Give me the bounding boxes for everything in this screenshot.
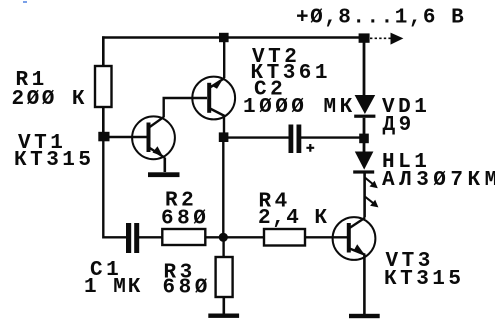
wire: HL1 to VT3 collector [363,174,366,218]
capacitor C2 [289,125,315,154]
node: junction R1/VT1 base [98,132,109,142]
wire: R2 to node B [205,236,223,238]
resistor R2 [162,229,205,245]
node: junction rail / supply arrow / VD1 [359,33,370,42]
node: junction VT2 collector / C2 [219,132,229,142]
wire: node E down to HL1 [363,142,366,152]
ground under VT3 [349,314,380,318]
svg-text:2,4 К: 2,4 К [258,207,329,230]
svg-text:68Ø: 68Ø [161,208,209,231]
wire: R1 top lead [102,36,105,66]
svg-text:Д9: Д9 [383,114,415,137]
wire: VT2 emitter up to rail [223,37,225,78]
wire: R3 bottom lead [223,297,226,314]
wire: VT3 emitter down [363,255,366,315]
LED HL1 [353,152,374,174]
svg-text:КТ315: КТ315 [384,268,465,291]
svg-text:+Ø,8...1,6 В: +Ø,8...1,6 В [296,7,465,30]
svg-text:КТ315: КТ315 [14,149,95,172]
wire: C2 to VD1 column [301,136,364,138]
wire: node B down to R3 [222,237,224,257]
wire: C1 to R2 [139,236,162,238]
supply arrow [370,33,403,45]
ground under VT1 [148,172,180,177]
wire: node B to R4 [223,236,264,238]
wire: R1 bottom lead [102,107,105,137]
svg-text:68Ø: 68Ø [163,277,211,300]
wire: VT1 collector up and right to VT2 base [164,98,207,117]
svg-text:АЛ3Ø7КМ: АЛ3Ø7КМ [382,169,495,192]
wire: VT2 collector down [223,116,225,134]
wire: VT1 base lead [104,136,147,138]
svg-text:1ØØØ МК: 1ØØØ МК [243,96,356,119]
resistor R1 [95,66,112,107]
svg-text:1 МК: 1 МК [84,276,142,299]
transistor VT3 [333,217,376,260]
node: junction VD1/C2/HL1 [359,134,369,144]
wire: top supply rail [102,36,364,39]
wire: VD1 to node E [363,118,366,134]
scan speck (blue) [23,1,27,3]
wire: node C to C2 [228,136,289,138]
LED light arrow 1 [365,178,378,189]
resistor R3 [216,257,233,297]
node: junction rail/VT2 emitter [219,33,229,42]
wire: left vertical to C1 [103,137,126,237]
transistor VT1 [132,116,175,159]
LED light arrow 2 [365,197,378,208]
resistor R4 [264,229,305,246]
wire: rail node down to VD1 [363,42,366,96]
node: junction R2/R3/R4 [219,233,228,242]
svg-text:2ØØ К: 2ØØ К [12,88,88,111]
wire: collector column VT2 down to node B [222,140,224,237]
diode VD1 [354,95,375,118]
ground under R3 [208,314,239,318]
wire: VT1 emitter down [164,158,167,173]
transistor VT2 [192,77,235,120]
wire: R4 to VT3 base [305,236,347,238]
capacitor C1 [126,223,139,253]
